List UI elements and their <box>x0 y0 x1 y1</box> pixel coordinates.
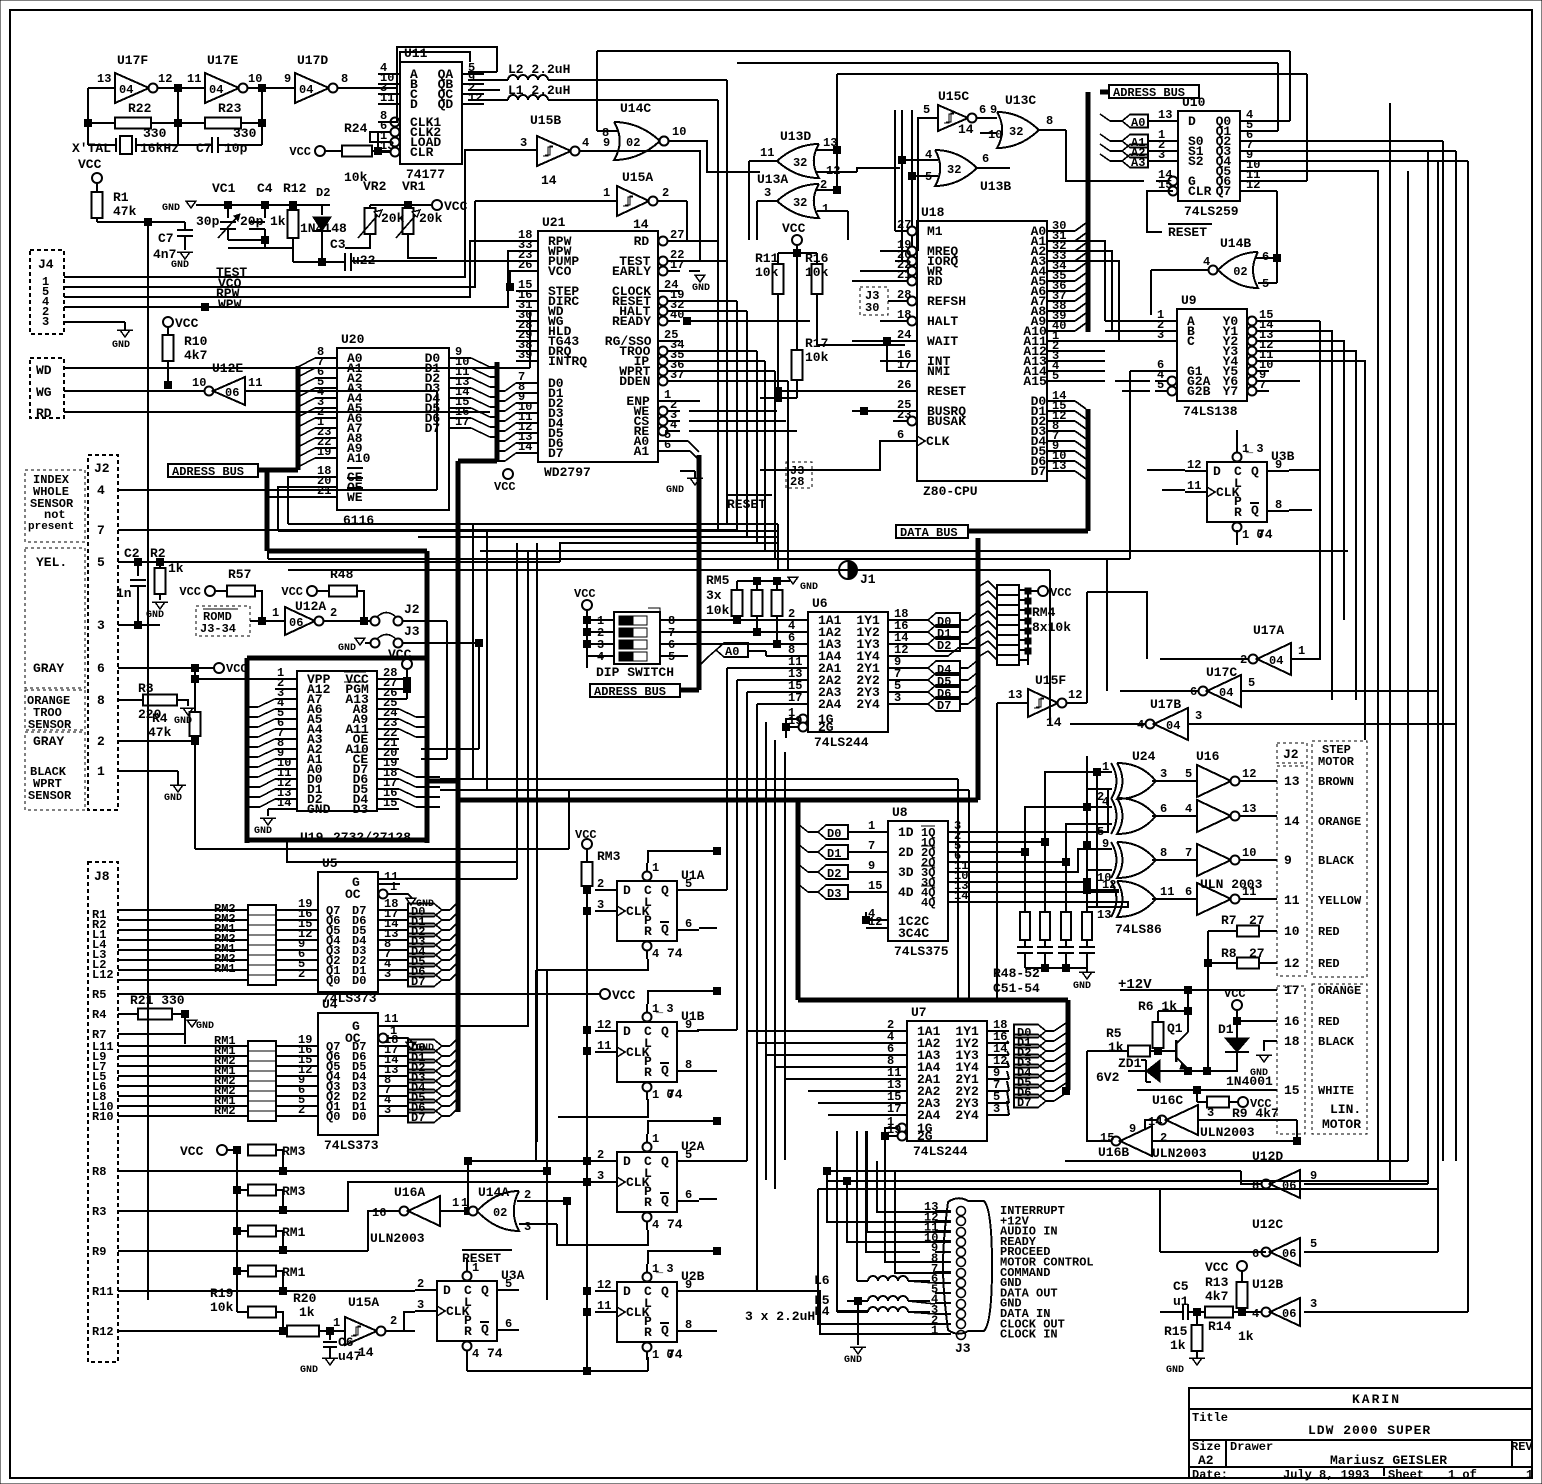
svg-text:02: 02 <box>493 1206 507 1220</box>
bus taps U21 data <box>505 383 516 391</box>
svg-text:32: 32 <box>1009 125 1023 139</box>
svg-text:74LS373: 74LS373 <box>324 1138 379 1153</box>
svg-text:RED: RED <box>1318 957 1340 971</box>
wire R11 <box>118 1290 415 1292</box>
svg-text:10: 10 <box>988 128 1002 142</box>
svg-text:D7: D7 <box>1017 1096 1031 1110</box>
svg-text:13: 13 <box>1242 802 1256 816</box>
wire U8 to U24 <box>970 789 1112 832</box>
svg-text:D2: D2 <box>316 186 330 200</box>
svg-text:04: 04 <box>1166 719 1180 733</box>
svg-text:19: 19 <box>887 1123 901 1137</box>
wire J3 risers <box>877 1161 951 1212</box>
wire U7 2G down <box>884 1160 886 1162</box>
svg-text:10k: 10k <box>805 350 829 365</box>
svg-text:1 of: 1 of <box>1448 1468 1477 1482</box>
power VCC U19 <box>402 659 412 669</box>
svg-text:7: 7 <box>868 839 875 853</box>
ground <box>180 708 196 715</box>
svg-text:GND: GND <box>164 793 182 804</box>
flipflop U2B <box>617 1282 677 1342</box>
svg-text:A0: A0 <box>1131 116 1145 130</box>
svg-text:5: 5 <box>1157 378 1164 392</box>
svg-text:U15B: U15B <box>530 113 561 128</box>
svg-text:R11: R11 <box>92 1285 114 1299</box>
svg-text:4: 4 <box>97 483 105 498</box>
dip switch <box>582 600 592 610</box>
svg-text:R4: R4 <box>152 711 168 726</box>
bus taps U19 right <box>399 709 416 717</box>
flipflop U1A <box>617 881 677 941</box>
svg-text:9: 9 <box>1129 1122 1136 1136</box>
svg-text:GND: GND <box>307 802 331 817</box>
svg-text:2: 2 <box>662 186 669 200</box>
svg-text:R10: R10 <box>184 334 208 349</box>
svg-text:4: 4 <box>582 136 589 150</box>
svg-text:WPW: WPW <box>218 297 242 312</box>
svg-text:74: 74 <box>487 1346 503 1361</box>
svg-text:VCC: VCC <box>179 585 201 599</box>
flags U7 outputs <box>1014 1025 1046 1038</box>
svg-text:U13C: U13C <box>1005 93 1036 108</box>
svg-text:1n: 1n <box>116 586 132 601</box>
svg-text:18: 18 <box>897 308 911 322</box>
svg-text:U17D: U17D <box>297 53 328 68</box>
svg-text:VR1: VR1 <box>402 179 426 194</box>
svg-text:3x: 3x <box>706 588 722 603</box>
svg-text:6: 6 <box>1252 1247 1259 1261</box>
wire <box>228 239 265 241</box>
power VCC R13 <box>1237 1261 1247 1271</box>
svg-text:U6: U6 <box>812 596 828 611</box>
svg-text:u1: u1 <box>1173 1294 1189 1309</box>
svg-text:R13: R13 <box>1205 1275 1229 1290</box>
svg-text:U20: U20 <box>341 332 365 347</box>
wire U7 inputs <box>747 1030 885 1032</box>
bus label ADRESS BUS <box>168 464 258 477</box>
svg-text:1: 1 <box>333 1316 340 1330</box>
svg-text:YELLOW: YELLOW <box>1318 894 1362 908</box>
bus taps U19 address <box>258 699 275 707</box>
svg-text:GRAY: GRAY <box>33 734 64 749</box>
svg-text:1k: 1k <box>1238 1329 1254 1344</box>
svg-text:VCC: VCC <box>388 647 412 662</box>
resistor R1 47k <box>96 183 98 192</box>
wire U15F chain right <box>1087 592 1147 659</box>
svg-text:D: D <box>623 1154 631 1169</box>
svg-text:GND: GND <box>1250 1068 1268 1079</box>
svg-text:VCC: VCC <box>78 157 102 172</box>
title block <box>1189 1388 1532 1478</box>
wire bottom connector links <box>1065 1160 1408 1162</box>
svg-text:J3-34: J3-34 <box>200 622 236 636</box>
svg-text:ADRESS BUS: ADRESS BUS <box>594 685 666 699</box>
svg-text:L: L <box>464 1295 472 1310</box>
svg-text:9: 9 <box>284 72 291 86</box>
svg-text:J1: J1 <box>860 572 876 587</box>
svg-text:R23: R23 <box>218 101 242 116</box>
svg-text:Size: Size <box>1192 1440 1221 1454</box>
power VCC RM stack <box>217 1145 227 1155</box>
svg-text:Q: Q <box>661 883 669 898</box>
svg-text:U16B: U16B <box>1098 1145 1129 1160</box>
svg-text:DIP SWITCH: DIP SWITCH <box>596 665 674 680</box>
svg-text:17: 17 <box>455 415 469 429</box>
svg-text:1k: 1k <box>270 214 286 229</box>
wire pin15 <box>1137 1089 1277 1091</box>
svg-text:2: 2 <box>97 734 105 749</box>
svg-text:SENSOR: SENSOR <box>28 789 72 803</box>
power VCC <box>214 663 224 673</box>
svg-text:3: 3 <box>1160 767 1167 781</box>
svg-text:8: 8 <box>602 126 609 140</box>
flipflop U3B <box>1207 462 1267 522</box>
label RESET mid <box>726 494 772 496</box>
svg-text:U18: U18 <box>921 205 945 220</box>
svg-text:U15A: U15A <box>348 1295 379 1310</box>
svg-text:06: 06 <box>1282 1307 1296 1321</box>
svg-text:2A4: 2A4 <box>818 697 842 712</box>
svg-text:8x10k: 8x10k <box>1032 620 1071 635</box>
svg-text:U13A: U13A <box>757 172 788 187</box>
svg-text:ZD1: ZD1 <box>1118 1056 1142 1071</box>
svg-text:D1: D1 <box>827 847 841 861</box>
ground EARLY <box>689 270 700 272</box>
wire right mid bundle <box>1319 400 1321 620</box>
svg-text:1: 1 <box>931 1324 938 1338</box>
svg-text:U10: U10 <box>1182 95 1206 110</box>
svg-text:3: 3 <box>1158 148 1165 162</box>
svg-text:3: 3 <box>384 1103 391 1117</box>
svg-text:3: 3 <box>1207 1106 1214 1120</box>
svg-text:U11: U11 <box>404 46 428 61</box>
svg-text:17: 17 <box>1284 983 1300 998</box>
svg-text:10: 10 <box>248 72 262 86</box>
svg-text:04: 04 <box>1219 686 1233 700</box>
svg-text:D3: D3 <box>827 887 841 901</box>
svg-text:X'TAL: X'TAL <box>72 141 111 156</box>
svg-text:6: 6 <box>685 917 692 931</box>
svg-text:12: 12 <box>1246 178 1260 192</box>
svg-text:R19: R19 <box>210 1286 234 1301</box>
svg-text:27: 27 <box>1249 946 1265 961</box>
sensor labels <box>25 470 85 542</box>
svg-text:10: 10 <box>1284 924 1300 939</box>
svg-text:L: L <box>644 895 652 910</box>
svg-text:CLR: CLR <box>410 145 434 160</box>
svg-text:present: present <box>28 521 74 533</box>
svg-text:11: 11 <box>1187 479 1201 493</box>
svg-text:2Y4: 2Y4 <box>955 1108 979 1123</box>
svg-text:3: 3 <box>1157 328 1164 342</box>
svg-text:BROWN: BROWN <box>1318 775 1354 789</box>
wire U20 control long <box>278 530 778 532</box>
wire QC stub <box>468 89 500 91</box>
svg-text:4Q: 4Q <box>921 896 935 910</box>
svg-text:R4: R4 <box>92 1008 106 1022</box>
latch U4 74LS373 <box>318 1013 378 1135</box>
svg-text:13: 13 <box>97 72 111 86</box>
svg-text:ORANGE: ORANGE <box>1318 815 1361 829</box>
svg-text:5: 5 <box>923 103 930 117</box>
svg-text:3C4C: 3C4C <box>898 926 929 941</box>
svg-text:4: 4 <box>1252 1307 1259 1321</box>
svg-text:U13B: U13B <box>980 179 1011 194</box>
svg-text:VCC: VCC <box>180 1144 204 1159</box>
svg-text:GND: GND <box>1166 1365 1184 1376</box>
svg-text:5: 5 <box>1310 1237 1317 1251</box>
svg-text:3: 3 <box>993 1102 1000 1116</box>
svg-text:5: 5 <box>685 877 692 891</box>
svg-text:ORANGE: ORANGE <box>1318 984 1361 998</box>
svg-text:6: 6 <box>664 438 671 452</box>
svg-text:VCC: VCC <box>612 988 636 1003</box>
svg-text:L: L <box>644 1296 652 1311</box>
svg-text:VCC: VCC <box>1050 586 1072 600</box>
ground U19 <box>268 808 275 810</box>
svg-text:Q: Q <box>481 1283 489 1298</box>
svg-text:7: 7 <box>1185 846 1192 860</box>
svg-text:12: 12 <box>868 915 882 929</box>
svg-text:C4: C4 <box>257 181 273 196</box>
counter U11 <box>400 62 462 164</box>
svg-text:R: R <box>644 1325 652 1340</box>
svg-text:HALT: HALT <box>927 314 958 329</box>
resistor RM3 b <box>234 1187 241 1194</box>
svg-text:VCC: VCC <box>289 145 311 159</box>
bus label ADRESS BUS right <box>1109 85 1199 98</box>
svg-text:REV: REV <box>1511 1440 1533 1454</box>
svg-text:R10: R10 <box>92 1110 114 1124</box>
svg-text:13: 13 <box>1284 774 1300 789</box>
connector J2 lin <box>1277 986 1305 1134</box>
svg-text:U19: U19 <box>300 830 324 845</box>
svg-text:30p: 30p <box>196 214 220 229</box>
svg-text:1k: 1k <box>1108 1040 1124 1055</box>
svg-text:ADRESS BUS: ADRESS BUS <box>1113 86 1185 100</box>
svg-text:1: 1 <box>272 606 279 620</box>
svg-text:S2: S2 <box>1188 154 1204 169</box>
svg-text:1: 1 <box>452 1196 459 1210</box>
svg-text:6116: 6116 <box>343 513 374 528</box>
wire horizontals mid <box>288 523 778 525</box>
svg-text:L2 2.2uH: L2 2.2uH <box>508 62 570 77</box>
svg-text:1̲ 3: 1̲ 3 <box>652 1002 674 1016</box>
resistor RM1 c <box>234 1228 241 1235</box>
svg-text:10: 10 <box>672 125 686 139</box>
svg-text:4k7: 4k7 <box>1205 1289 1228 1304</box>
svg-text:R: R <box>644 924 652 939</box>
svg-text:VR2: VR2 <box>363 179 387 194</box>
wire U3B pins <box>1147 469 1185 471</box>
svg-text:LIN.: LIN. <box>1330 1102 1361 1117</box>
svg-text:VCC: VCC <box>1205 1260 1229 1275</box>
svg-text:9: 9 <box>685 1278 692 1292</box>
wire WD <box>64 367 530 369</box>
svg-text:R3: R3 <box>92 1205 106 1219</box>
wire right verticals <box>1442 141 1444 1161</box>
svg-text:R17: R17 <box>805 336 828 351</box>
svg-text:R24: R24 <box>344 121 368 136</box>
wire <box>786 719 794 727</box>
svg-text:M1: M1 <box>927 224 943 239</box>
svg-text:R8: R8 <box>1221 946 1237 961</box>
svg-text:Mariusz GEISLER: Mariusz GEISLER <box>1330 1453 1447 1468</box>
wire <box>88 87 115 89</box>
svg-text:NMI: NMI <box>927 364 950 379</box>
svg-text:1: 1 <box>652 861 659 875</box>
svg-text:J2: J2 <box>94 461 110 476</box>
svg-text:11: 11 <box>187 72 201 86</box>
svg-text:U16: U16 <box>1196 749 1220 764</box>
svg-text:06: 06 <box>289 616 303 630</box>
svg-text:Q: Q <box>661 922 669 937</box>
svg-text:11: 11 <box>248 376 262 390</box>
svg-text:BLACK: BLACK <box>1318 1035 1355 1049</box>
svg-text:GND: GND <box>112 340 130 351</box>
ground <box>64 321 125 323</box>
svg-text:11: 11 <box>597 1039 611 1053</box>
svg-text:not: not <box>44 508 66 522</box>
svg-text:VCC: VCC <box>1224 987 1246 1001</box>
wire rail x473 <box>472 524 474 779</box>
wire <box>288 477 315 524</box>
svg-text:3: 3 <box>1195 709 1202 723</box>
flags A0-A3 <box>1122 115 1148 128</box>
svg-text:3: 3 <box>524 1220 531 1234</box>
svg-text:RESET: RESET <box>727 497 766 512</box>
wire VPP <box>195 678 275 680</box>
svg-text:L: L <box>1234 476 1242 491</box>
svg-text:WHITE: WHITE <box>1318 1084 1354 1098</box>
svg-text:D0: D0 <box>352 1110 366 1124</box>
svg-text:12: 12 <box>1242 767 1256 781</box>
svg-text:VCC: VCC <box>175 316 199 331</box>
svg-text:Q: Q <box>661 1284 669 1299</box>
svg-text:47k: 47k <box>113 204 137 219</box>
svg-text:U12E: U12E <box>212 361 243 376</box>
svg-text:1̲ 3: 1̲ 3 <box>652 1262 674 1276</box>
wire long rails middle <box>717 240 719 530</box>
svg-text:2D: 2D <box>898 845 914 860</box>
svg-text:QD: QD <box>438 97 454 112</box>
svg-text:Title: Title <box>1192 1411 1228 1425</box>
wire +12V line <box>1152 989 1277 991</box>
svg-text:2: 2 <box>524 1188 531 1202</box>
svg-text:MOTOR: MOTOR <box>1322 1117 1361 1132</box>
svg-text:3: 3 <box>597 898 604 912</box>
bus wire adress <box>258 468 298 473</box>
svg-text:2: 2 <box>390 1314 397 1328</box>
svg-text:14: 14 <box>1284 814 1300 829</box>
svg-text:32: 32 <box>793 156 807 170</box>
flags U5 outputs <box>400 909 408 911</box>
sram U20 6116 <box>337 348 449 510</box>
wire U21 right outs <box>680 240 718 242</box>
svg-text:8: 8 <box>1160 846 1167 860</box>
wire +12V left <box>1120 989 1152 991</box>
svg-text:ULN2003: ULN2003 <box>370 1231 425 1246</box>
svg-text:U12C: U12C <box>1252 1217 1283 1232</box>
svg-text:RM4: RM4 <box>1032 605 1056 620</box>
svg-text:RESET: RESET <box>1168 225 1207 240</box>
svg-text:02: 02 <box>626 136 640 150</box>
svg-text:R5: R5 <box>92 988 106 1002</box>
ground <box>152 602 168 609</box>
svg-text:INTRQ: INTRQ <box>548 354 587 369</box>
svg-text:D3: D3 <box>353 802 369 817</box>
svg-text:A15: A15 <box>1023 374 1047 389</box>
label ROMD J3-34 <box>196 606 250 636</box>
svg-text:A10: A10 <box>347 451 371 466</box>
svg-text:16kHz: 16kHz <box>140 141 179 156</box>
wire QA loop <box>468 71 497 73</box>
svg-text:RM5: RM5 <box>706 573 730 588</box>
svg-text:GND: GND <box>196 1021 214 1032</box>
svg-text:U12A: U12A <box>295 599 326 614</box>
svg-text:J2: J2 <box>404 602 420 617</box>
svg-text:32: 32 <box>947 163 961 177</box>
wire A0 A1 to bus <box>680 440 688 442</box>
wire <box>322 261 345 263</box>
svg-text:4: 4 <box>652 1218 659 1232</box>
wire top right <box>597 50 1290 52</box>
svg-text:R12: R12 <box>92 1325 114 1339</box>
svg-text:L: L <box>644 1036 652 1051</box>
svg-text:74LS86: 74LS86 <box>1115 922 1162 937</box>
resistor RM1 d <box>234 1268 241 1275</box>
connector J3 dsub <box>943 1198 992 1334</box>
svg-text:OC: OC <box>345 1031 361 1046</box>
svg-text:1 0: 1 0 <box>1242 528 1264 542</box>
wire U21 right bundle <box>680 260 727 262</box>
svg-text:GND: GND <box>666 485 684 496</box>
svg-text:ULN 2003: ULN 2003 <box>1200 877 1263 892</box>
svg-text:U24: U24 <box>1132 749 1156 764</box>
svg-text:Q: Q <box>661 1193 669 1208</box>
svg-text:Q: Q <box>661 1063 669 1078</box>
svg-text:3 x 2.2uH: 3 x 2.2uH <box>745 1309 815 1324</box>
svg-text:U17C: U17C <box>1206 665 1237 680</box>
svg-text:U21: U21 <box>542 215 566 230</box>
ground <box>177 252 193 259</box>
svg-text:2: 2 <box>298 1103 305 1117</box>
svg-text:1 0: 1 0 <box>652 1088 674 1102</box>
wire U14A nets <box>566 1201 568 1245</box>
power VCC RM3 mid <box>582 839 592 849</box>
svg-text:U15A: U15A <box>622 170 653 185</box>
connector WD WG RD <box>30 358 64 418</box>
connector J4 <box>30 250 64 334</box>
label RESET right <box>1147 191 1173 232</box>
eprom U19 2732/27128 <box>297 671 377 811</box>
svg-text:WG: WG <box>36 385 52 400</box>
svg-text:U8: U8 <box>892 805 908 820</box>
svg-text:VCC: VCC <box>494 480 516 494</box>
svg-text:OC: OC <box>345 887 361 902</box>
connector J2 <box>88 455 118 810</box>
svg-text:12: 12 <box>1284 956 1300 971</box>
svg-text:GND: GND <box>800 582 818 593</box>
svg-text:RESET: RESET <box>462 1251 501 1266</box>
connector J1 <box>839 561 857 579</box>
svg-text:R12: R12 <box>283 181 307 196</box>
svg-text:1: 1 <box>603 186 610 200</box>
ground <box>1189 1358 1205 1365</box>
svg-text:D: D <box>1213 464 1221 479</box>
latch U8 74LS375 <box>888 821 948 941</box>
svg-text:4: 4 <box>597 650 604 664</box>
